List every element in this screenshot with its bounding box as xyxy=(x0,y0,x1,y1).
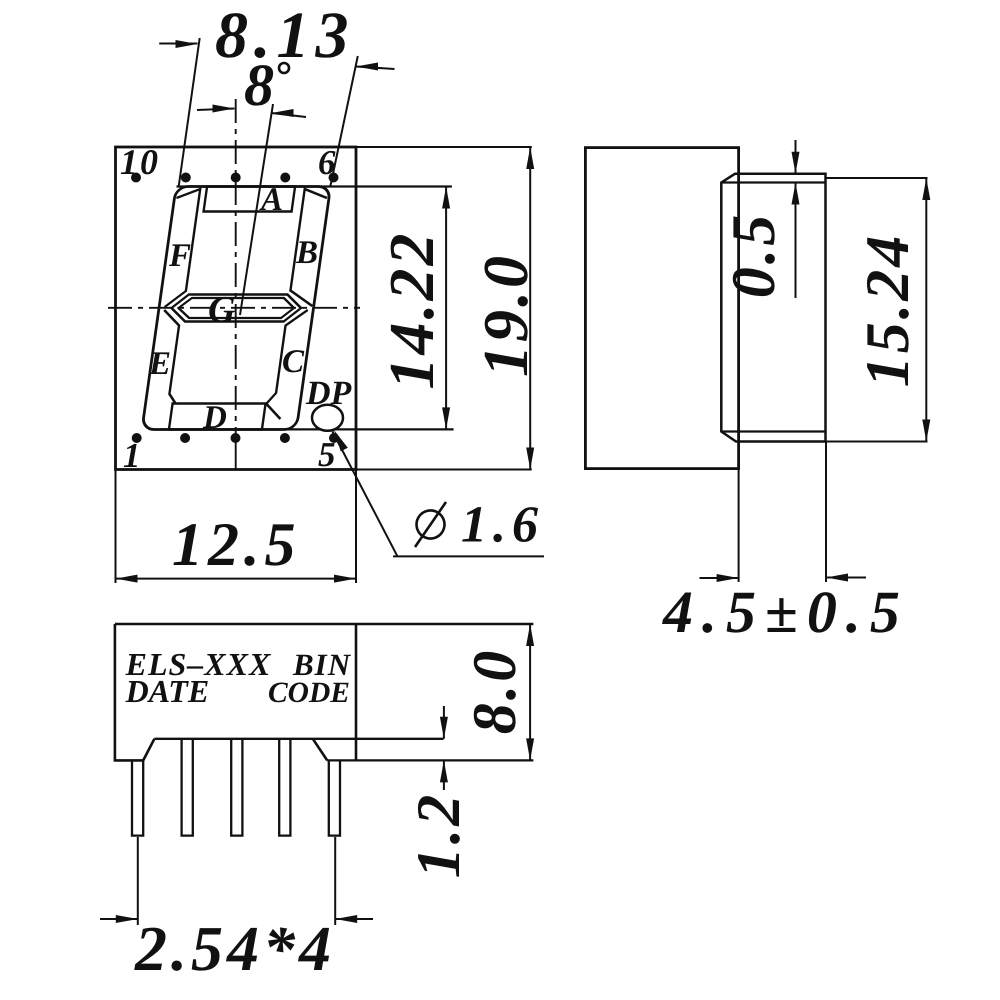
segment C xyxy=(267,310,308,404)
svg-text:19.0: 19.0 xyxy=(470,253,541,377)
vertical centerline xyxy=(235,99,237,470)
dimension 2.54*4 xyxy=(100,837,373,984)
svg-text:8.0: 8.0 xyxy=(461,648,529,735)
svg-text:8: 8 xyxy=(244,52,274,118)
segment D xyxy=(169,404,266,430)
svg-text:1.2: 1.2 xyxy=(405,792,473,879)
svg-text:E: E xyxy=(148,346,171,382)
dimension 8.13 xyxy=(159,0,394,187)
svg-text:B: B xyxy=(295,235,318,271)
svg-text:G: G xyxy=(208,289,236,331)
svg-text:15.24: 15.24 xyxy=(854,233,922,388)
C/D corner gap line xyxy=(264,404,283,420)
segment A xyxy=(204,187,296,212)
14.22 top extension line / digit top edge xyxy=(177,185,452,187)
side view epoxy body xyxy=(721,174,825,442)
dimension 0.5 xyxy=(720,140,800,298)
dimension 8.0 xyxy=(461,624,534,760)
segment G outer xyxy=(170,295,303,322)
svg-text:2.54*4: 2.54*4 xyxy=(134,913,335,984)
svg-text:CODE: CODE xyxy=(268,677,350,709)
svg-text:5: 5 xyxy=(318,435,336,474)
pin 5 lead xyxy=(329,760,340,835)
svg-text:1: 1 xyxy=(123,436,141,475)
svg-text:1.6: 1.6 xyxy=(461,497,544,554)
pin 1 lead xyxy=(132,760,143,835)
svg-text:DP: DP xyxy=(305,375,352,412)
segment B xyxy=(288,189,328,306)
pin 4 lead xyxy=(279,739,290,836)
svg-text:0.5: 0.5 xyxy=(720,212,788,299)
dimension 4.5 +/- 0.5 xyxy=(662,442,909,646)
dimension 1.2 xyxy=(405,706,473,878)
digit outline xyxy=(142,187,331,430)
svg-text:12.5: 12.5 xyxy=(172,511,301,579)
segment F xyxy=(161,189,200,307)
leader and label dia 1.6 xyxy=(333,430,545,556)
front view outline box xyxy=(116,147,357,470)
digit tilt axis line xyxy=(240,104,273,315)
top pin dots row xyxy=(131,173,339,183)
svg-text:10: 10 xyxy=(120,142,160,182)
bottom pin dots row xyxy=(132,433,339,443)
horizontal centerline xyxy=(108,307,360,309)
dimension 19.0 xyxy=(356,147,541,470)
dimension 12.5 xyxy=(116,470,357,583)
side view display face rectangle xyxy=(585,148,738,469)
pin 2 lead xyxy=(182,739,193,836)
dimension 15.24 xyxy=(826,178,930,442)
svg-text:F: F xyxy=(168,238,191,274)
dimension 14.22 xyxy=(376,187,450,430)
seven segment digit xyxy=(142,187,331,430)
DP circle xyxy=(312,405,343,431)
dimension 8 degrees xyxy=(197,52,306,118)
svg-text:C: C xyxy=(282,344,305,380)
svg-text:4.5±0.5: 4.5±0.5 xyxy=(662,579,909,645)
14.22 bottom extension line / digit bottom edge xyxy=(160,428,454,430)
svg-text:8.13: 8.13 xyxy=(215,0,355,72)
svg-text:DATE: DATE xyxy=(125,673,210,709)
bottom view body xyxy=(115,624,534,760)
svg-text:14.22: 14.22 xyxy=(376,231,447,390)
pin 3 lead xyxy=(231,739,242,836)
svg-text:A: A xyxy=(259,182,283,218)
segment E xyxy=(151,310,189,404)
segment G inner xyxy=(177,298,295,318)
svg-text:D: D xyxy=(202,400,227,436)
